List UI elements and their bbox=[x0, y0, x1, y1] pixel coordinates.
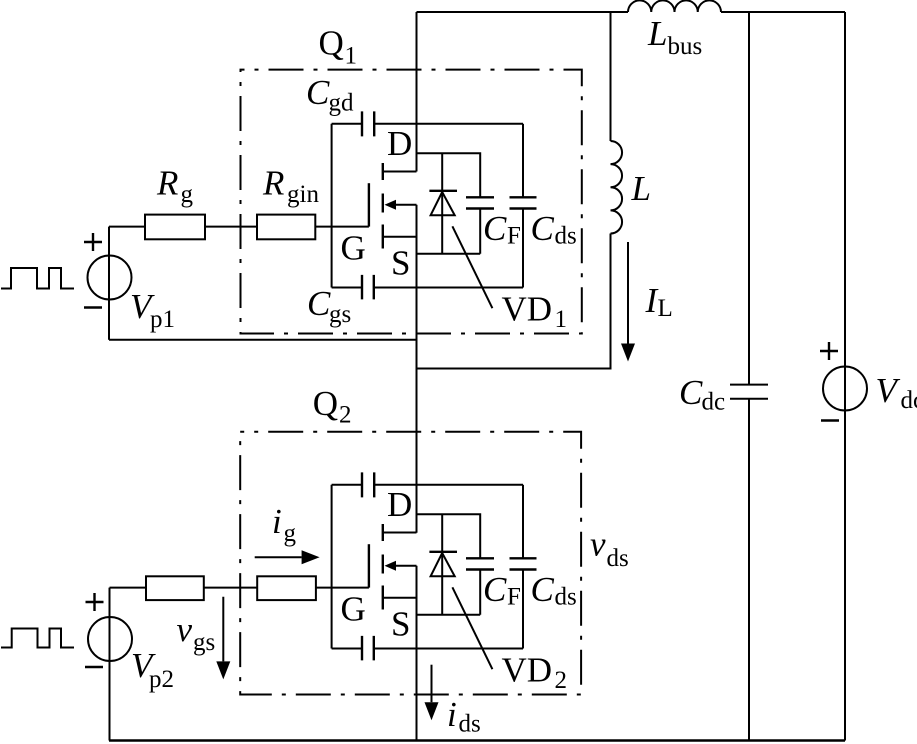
capacitor Cgs Q1 bbox=[362, 275, 374, 300]
dash-dot box Q1 bbox=[241, 70, 582, 334]
transistor Q2 source tab bbox=[383, 597, 417, 599]
svg-text:1: 1 bbox=[345, 43, 358, 70]
svg-text:L: L bbox=[647, 14, 667, 53]
svg-text:S: S bbox=[391, 605, 410, 644]
svg-text:V: V bbox=[876, 371, 901, 410]
transistor Q2 body arrow bbox=[396, 565, 417, 567]
arrow ig bbox=[255, 556, 302, 558]
minus sign Vp1 bbox=[84, 306, 102, 308]
inner box Q1 (diode cell) bbox=[417, 153, 481, 253]
svg-text:C: C bbox=[531, 209, 555, 248]
dash-dot box Q2 bbox=[240, 432, 581, 695]
voltage source Vp1 bbox=[88, 256, 132, 300]
arrow ids bbox=[431, 665, 433, 703]
svg-text:dc: dc bbox=[702, 389, 726, 416]
diode VD1 bbox=[441, 153, 443, 253]
transistor Q1 body arrow bbox=[396, 204, 417, 206]
minus sign Vdc bbox=[821, 419, 839, 421]
svg-text:gs: gs bbox=[193, 629, 215, 656]
svg-text:p2: p2 bbox=[149, 666, 174, 693]
svg-text:C: C bbox=[483, 570, 507, 609]
wire main bridge lower (Q2 source) bbox=[416, 566, 418, 741]
pulse waveform symbol (Vp1 drive) bbox=[1, 268, 74, 289]
svg-text:C: C bbox=[307, 284, 331, 323]
svg-text:F: F bbox=[507, 584, 521, 611]
wire Cgd2 to drain node bbox=[374, 484, 523, 486]
capacitor Cdc bbox=[730, 385, 768, 399]
diode VD2 bbox=[441, 514, 443, 614]
wire gate loop left vertical Q1 bbox=[331, 124, 333, 288]
svg-text:G: G bbox=[341, 590, 366, 629]
plus sign Vp1 bbox=[84, 233, 102, 251]
transistor Q2 channel dashes bbox=[382, 524, 384, 610]
wire Rgin2 to gate bbox=[316, 587, 369, 589]
wire Cgs2 to gate loop bbox=[332, 648, 362, 650]
plus sign Vp2 bbox=[86, 593, 104, 611]
svg-text:C: C bbox=[531, 570, 555, 609]
wire Cgs to gate loop Q1 bbox=[332, 287, 362, 289]
svg-text:F: F bbox=[507, 223, 521, 250]
svg-text:ds: ds bbox=[607, 545, 629, 572]
svg-text:gd: gd bbox=[329, 90, 355, 117]
svg-text:g: g bbox=[284, 520, 297, 547]
wire Vp2 to resistor bbox=[110, 587, 147, 589]
transistor Q1 gate bar bbox=[368, 183, 370, 226]
voltage source Vp2 bbox=[88, 617, 132, 661]
svg-text:ds: ds bbox=[555, 223, 577, 250]
transistor Q1 drain tab bbox=[383, 171, 417, 173]
svg-text:gs: gs bbox=[329, 301, 351, 328]
resistor Rgin bbox=[257, 215, 315, 240]
capacitor Cds2 bbox=[510, 558, 537, 569]
wire main bridge middle (Q1 source / Q2 drain) bbox=[416, 205, 418, 533]
svg-text:L: L bbox=[658, 295, 673, 322]
svg-text:v: v bbox=[177, 610, 193, 649]
svg-text:D: D bbox=[387, 124, 412, 163]
svg-text:gin: gin bbox=[287, 181, 319, 208]
resistor Rgin2 bbox=[257, 576, 316, 600]
pointer line VD1 bbox=[452, 226, 492, 308]
svg-text:R: R bbox=[262, 164, 284, 203]
capacitor Cgd bbox=[362, 111, 374, 136]
pointer line VD2 bbox=[452, 587, 492, 669]
svg-text:Q: Q bbox=[319, 24, 344, 63]
capacitor Cds Q1 bbox=[510, 197, 537, 208]
wire Cds2 drop bbox=[522, 485, 524, 559]
svg-text:R: R bbox=[156, 164, 178, 203]
minus sign Vp2 bbox=[85, 666, 103, 668]
wire gate loop top Q2 bbox=[332, 484, 362, 486]
wire Cds to source rail Q1 bbox=[374, 209, 523, 288]
wire Vp1 vertical bbox=[108, 227, 110, 340]
svg-text:VD: VD bbox=[502, 651, 553, 690]
wire top rail right bbox=[721, 11, 845, 13]
svg-text:L: L bbox=[631, 169, 651, 208]
svg-text:G: G bbox=[341, 229, 366, 268]
pulse waveform symbol (Vp2 drive) bbox=[1, 629, 74, 648]
inductor Lbus bbox=[628, 0, 721, 12]
voltage source Vdc bbox=[823, 367, 867, 411]
svg-text:C: C bbox=[483, 209, 507, 248]
transistor Q2 gate bar bbox=[368, 544, 370, 587]
svg-text:v: v bbox=[590, 525, 606, 564]
wire gate loop left vertical Q2 bbox=[331, 485, 333, 649]
inductor L bbox=[611, 141, 623, 234]
wire Vp1 to Rg bbox=[109, 226, 145, 228]
wire gate loop top Q1 bbox=[332, 123, 362, 125]
capacitor Cgd2 bbox=[362, 472, 374, 497]
wire Cds2 to source rail bbox=[374, 570, 523, 649]
capacitor CF Q1 bbox=[466, 197, 494, 208]
svg-text:VD: VD bbox=[502, 290, 553, 329]
wire main bridge upper (Q1 drain) bbox=[416, 12, 418, 172]
arrow IL bbox=[627, 242, 629, 344]
wire Cgd to drain node Q1 bbox=[374, 123, 523, 125]
capacitor CF Q2 bbox=[466, 558, 494, 569]
wire Vdc branch bbox=[844, 12, 846, 741]
inner box Q2 (diode cell) bbox=[417, 514, 481, 614]
transistor Q1 channel dashes bbox=[382, 163, 384, 249]
svg-text:i: i bbox=[447, 695, 457, 734]
svg-text:C: C bbox=[306, 73, 330, 112]
wire Rgin to gate bbox=[315, 226, 369, 228]
svg-text:Q: Q bbox=[313, 384, 338, 423]
capacitor Cgs2 bbox=[362, 636, 374, 661]
wire L branch bottom bbox=[417, 234, 611, 369]
resistor Rg bbox=[145, 215, 205, 240]
wire bottom rail bbox=[109, 739, 845, 742]
wire L branch top bbox=[610, 12, 612, 141]
svg-text:S: S bbox=[391, 244, 410, 283]
wire top rail left bbox=[417, 11, 629, 13]
svg-text:D: D bbox=[387, 485, 412, 524]
wire Cds drop Q1 bbox=[522, 124, 524, 198]
wire resistor to resistor Q2 bbox=[204, 587, 257, 589]
svg-text:2: 2 bbox=[555, 667, 568, 694]
svg-text:C: C bbox=[679, 373, 703, 412]
transistor Q2 drain tab bbox=[383, 532, 417, 534]
svg-text:bus: bus bbox=[668, 33, 703, 60]
wire Cdc branch upper bbox=[748, 12, 750, 385]
arrow vgs bbox=[222, 597, 224, 662]
svg-text:g: g bbox=[181, 181, 194, 208]
svg-text:ds: ds bbox=[555, 584, 577, 611]
plus sign Vdc bbox=[820, 342, 838, 360]
wire Vp2 vertical bbox=[109, 588, 111, 741]
wire Cdc branch lower bbox=[748, 399, 750, 741]
svg-text:p1: p1 bbox=[150, 306, 175, 333]
resistor Rg2 bbox=[146, 576, 204, 600]
svg-text:i: i bbox=[272, 502, 282, 541]
svg-text:1: 1 bbox=[555, 306, 568, 333]
svg-text:ds: ds bbox=[459, 711, 481, 738]
svg-text:dc: dc bbox=[901, 387, 917, 414]
wire Vp1 return bbox=[109, 339, 417, 341]
transistor Q1 source tab bbox=[383, 236, 417, 238]
svg-text:2: 2 bbox=[339, 402, 352, 429]
wire Rg to Rgin bbox=[205, 226, 257, 228]
